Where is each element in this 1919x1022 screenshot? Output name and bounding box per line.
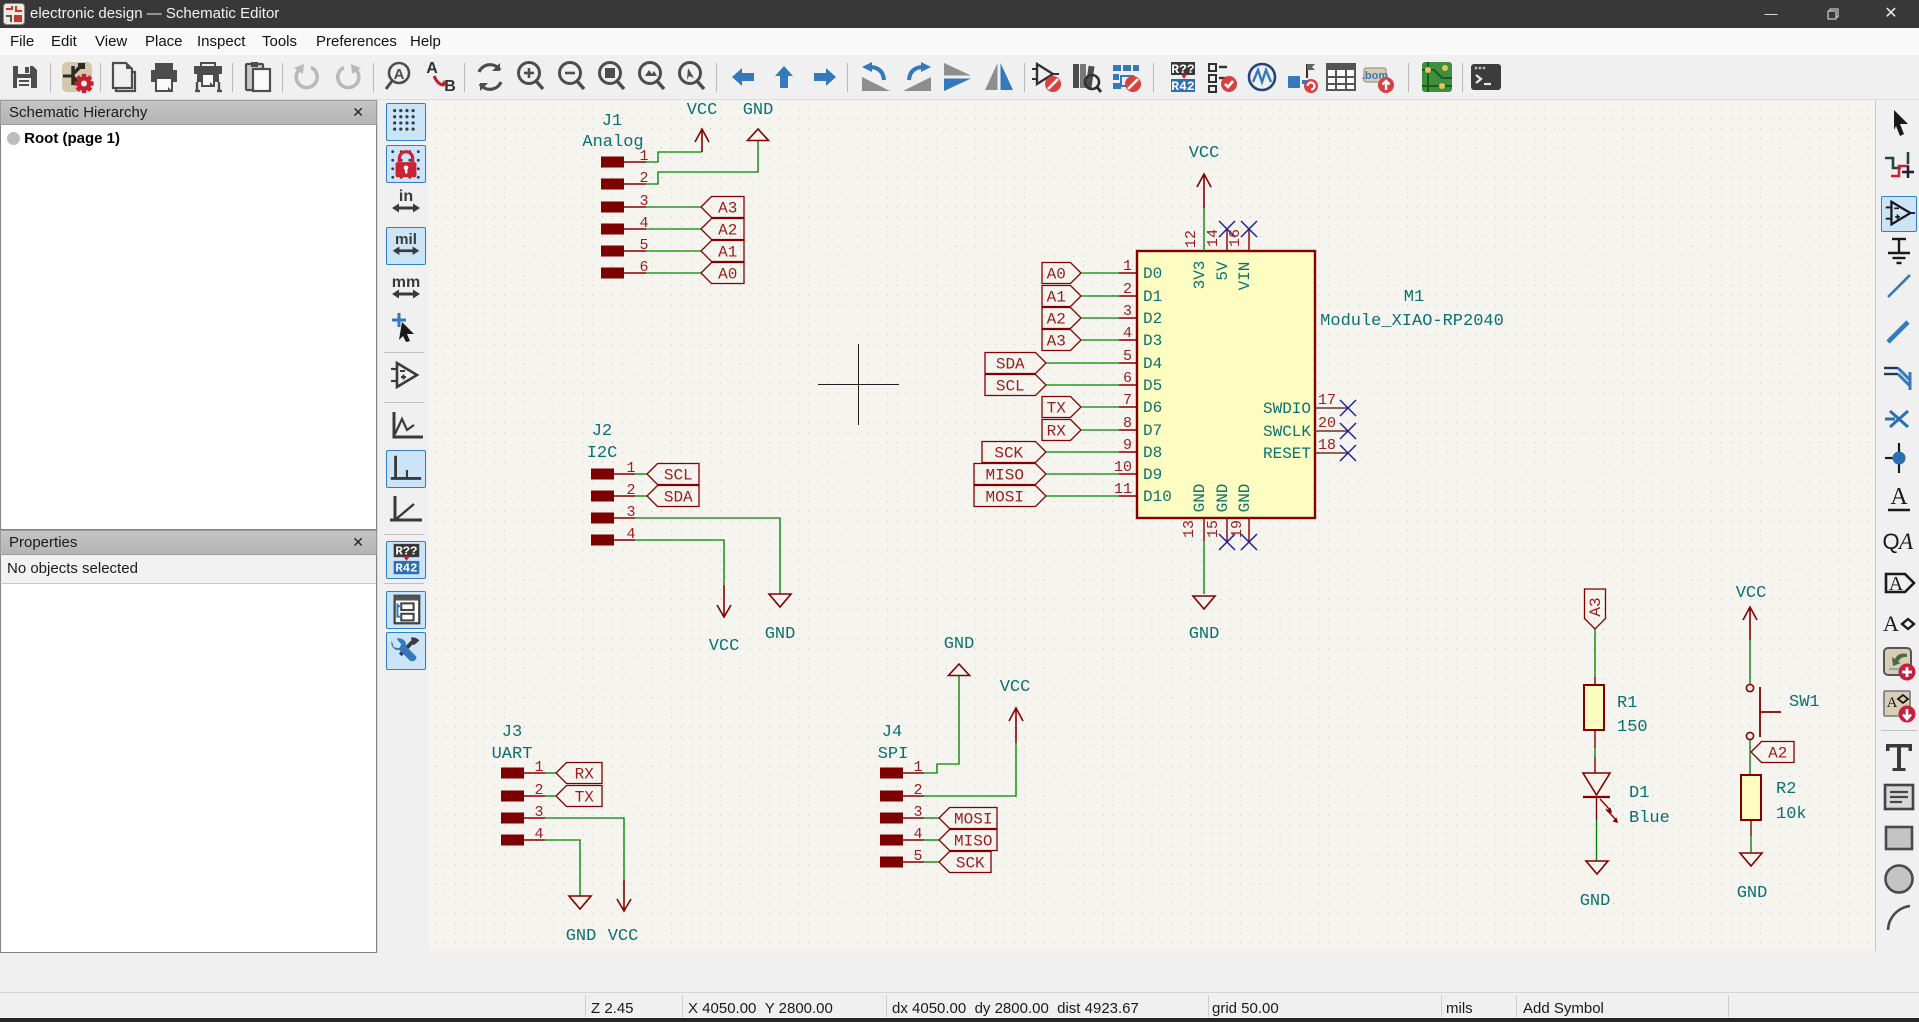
M1 pin stub GND pin13	[1203, 518, 1205, 541]
wire J1 to label A0	[646, 272, 701, 274]
wire VCC to SW1	[1749, 640, 1751, 684]
svg-text:A: A	[1890, 484, 1908, 510]
hierarchical label A1 at M1	[1042, 286, 1081, 307]
status bar	[0, 992, 1919, 1018]
hierarchical label SCL at M1	[985, 375, 1046, 396]
wire A0 to M1	[1081, 272, 1119, 274]
wire MISO to M1	[1046, 473, 1119, 475]
svg-text:D8: D8	[1143, 444, 1162, 462]
crosshair cursor	[818, 344, 899, 425]
wire J1 to label A3	[646, 206, 701, 208]
menu bar	[0, 28, 1919, 55]
wire J4 pin1 to GND	[924, 676, 959, 773]
connector J1 pad pin 3	[601, 202, 624, 213]
svg-text:J4: J4	[882, 723, 902, 742]
wire SCL to M1	[1046, 384, 1119, 386]
connector J2 pad pin 1	[591, 469, 614, 480]
resistor R2 body	[1741, 775, 1761, 820]
svg-text:A: A	[394, 66, 405, 83]
svg-text:SWDIO: SWDIO	[1263, 400, 1311, 418]
wire J1 to label A1	[646, 250, 701, 252]
wire A2 to M1	[1081, 317, 1119, 319]
power symbol VCC inverted at J2	[717, 585, 731, 617]
hierarchical label A0 at J1	[701, 263, 744, 284]
connector J1 pad pin 4	[601, 224, 624, 235]
svg-text:Q: Q	[1882, 529, 1899, 554]
hierarchical label A2 at J1	[701, 219, 744, 240]
no-connect on M1 pin 16	[1241, 221, 1257, 237]
no-connect on M1 pin 17	[1340, 400, 1356, 416]
svg-text:SDA: SDA	[664, 489, 693, 507]
svg-text:mil: mil	[395, 231, 417, 248]
right toolbar	[1875, 100, 1919, 992]
svg-text:A0: A0	[718, 266, 737, 284]
wire A3 to M1	[1081, 339, 1119, 341]
J4 pin 2 stub	[902, 795, 924, 797]
hierarchical label SDA at J2	[647, 486, 699, 507]
svg-text:mm: mm	[392, 274, 420, 291]
wire SCK to M1	[1046, 451, 1119, 453]
wire J2 pin3 to GND	[635, 518, 780, 594]
no-connect on M1 pin 14	[1219, 221, 1235, 237]
LED D1 symbol	[1583, 773, 1618, 823]
hierarchical label TX at J3	[556, 786, 602, 807]
wire J2 pin1 to SCL	[635, 473, 647, 475]
connector J3 pad pin 4	[501, 835, 524, 846]
J3 pin 3 stub	[523, 817, 545, 819]
M1 pin stub SWCLK	[1315, 430, 1347, 432]
svg-text:SWCLK: SWCLK	[1263, 423, 1311, 441]
M1 pin stub A2	[1119, 317, 1137, 319]
no-connect on M1 pin 18	[1340, 445, 1356, 461]
svg-text:MISO: MISO	[954, 833, 992, 851]
no-connect on M1 pin 15	[1219, 534, 1235, 550]
M1 pin stub MISO	[1119, 473, 1137, 475]
svg-text:3V3: 3V3	[1191, 261, 1209, 290]
M1 pin stub A1	[1119, 295, 1137, 297]
wire SDA to M1	[1046, 362, 1119, 364]
wire J4 pin5 to SCK	[924, 861, 939, 863]
connector J3 pad pin 1	[501, 768, 524, 779]
left toolbar	[377, 100, 429, 992]
svg-text:VCC: VCC	[709, 637, 740, 656]
svg-text:A2: A2	[1047, 311, 1066, 329]
power symbol VCC inverted at J3	[617, 880, 631, 911]
wire J3 pin2 to TX	[545, 795, 556, 797]
hierarchical label SCL at J2	[647, 464, 699, 485]
svg-text:GND: GND	[1189, 625, 1220, 644]
R1 top pin stub	[1594, 677, 1596, 685]
svg-text:VCC: VCC	[1000, 678, 1031, 697]
wire TX to M1	[1081, 406, 1119, 408]
hierarchical label MOSI at J4	[939, 808, 997, 829]
svg-text:GND: GND	[1214, 484, 1232, 513]
J2 pin 1 stub	[613, 473, 635, 475]
svg-text:A2: A2	[718, 222, 737, 240]
svg-text:SCL: SCL	[996, 378, 1025, 396]
svg-text:20: 20	[1318, 415, 1336, 432]
svg-text:18: 18	[1318, 437, 1336, 454]
J4 pin 1 stub	[902, 772, 924, 774]
power symbol GND at J3	[569, 896, 591, 909]
wire J4 pin4 to MISO	[924, 839, 939, 841]
power symbol GND at J2	[769, 594, 791, 607]
J4 pin 4 stub	[902, 839, 924, 841]
svg-text:Blue: Blue	[1629, 809, 1670, 828]
svg-text:GND: GND	[1737, 884, 1768, 903]
svg-text:Module_XIAO-RP2040: Module_XIAO-RP2040	[1320, 312, 1504, 331]
M1 pin stub RX	[1119, 429, 1137, 431]
svg-text:19: 19	[1229, 520, 1246, 538]
switch SW1 symbol	[1746, 684, 1781, 739]
hierarchical label TX at M1	[1042, 397, 1081, 418]
connector J4 pad pin 3	[880, 813, 903, 824]
wire J3 pin4 to GND	[545, 840, 580, 896]
connector J4 pad pin 4	[880, 835, 903, 846]
wire R2 to GND	[1750, 820, 1752, 836]
hierarchical label MISO at J4	[939, 830, 997, 851]
svg-text:GND: GND	[1580, 892, 1611, 911]
svg-text:D1: D1	[1143, 288, 1162, 306]
svg-text:GND: GND	[743, 101, 774, 120]
J1 pin 3 stub	[624, 206, 646, 208]
svg-text:RESET: RESET	[1263, 445, 1311, 463]
svg-text:D10: D10	[1143, 488, 1172, 506]
svg-text:SPI: SPI	[878, 745, 909, 764]
connector J2 pad pin 2	[591, 491, 614, 502]
svg-text:A3: A3	[1587, 597, 1605, 616]
svg-text:12: 12	[1183, 230, 1200, 248]
svg-text:D5: D5	[1143, 377, 1162, 395]
module M1 body Module_XIAO-RP2040	[1137, 251, 1315, 518]
M1 pin stub GND pin15	[1226, 518, 1228, 541]
svg-text:15: 15	[1205, 520, 1222, 538]
hierarchical label A2 at SW1	[1751, 742, 1794, 763]
M1 pin stub VIN	[1248, 229, 1250, 251]
svg-text:5V: 5V	[1214, 261, 1232, 281]
svg-text:J2: J2	[592, 422, 612, 441]
resistor R1 body	[1584, 685, 1604, 730]
svg-text:SCK: SCK	[994, 445, 1023, 463]
wire J1 to label A2	[646, 228, 701, 230]
svg-text:A: A	[1897, 529, 1914, 554]
M1 pin stub MOSI	[1119, 495, 1137, 497]
svg-text:I2C: I2C	[587, 444, 618, 463]
no-connect on M1 pin 19	[1241, 534, 1257, 550]
M1 pin stub TX	[1119, 406, 1137, 408]
J1 pin 5 stub	[624, 250, 646, 252]
svg-text:D0: D0	[1143, 265, 1162, 283]
no-connect on M1 pin 20	[1340, 423, 1356, 439]
wire A3 label to R1	[1594, 629, 1596, 677]
M1 pin stub SDA	[1119, 362, 1137, 364]
connector J1 pad pin 1	[601, 157, 624, 168]
svg-text:14: 14	[1205, 229, 1222, 247]
svg-text:GND: GND	[1236, 484, 1254, 513]
power symbol GND at J4	[949, 664, 970, 676]
J4 pin 3 stub	[902, 817, 924, 819]
svg-text:A3: A3	[718, 200, 737, 218]
connector J1 pad pin 2	[601, 179, 624, 190]
svg-text:TX: TX	[575, 789, 595, 807]
svg-text:A: A	[1887, 695, 1898, 711]
wire M1 GND pin13 to GND symbol	[1203, 541, 1205, 594]
J3 pin 2 stub	[523, 795, 545, 797]
svg-text:TX: TX	[1047, 400, 1067, 418]
svg-text:D6: D6	[1143, 399, 1162, 417]
toolbar	[0, 55, 1919, 100]
wire J1 pin1 to VCC	[646, 152, 702, 162]
svg-text:MISO: MISO	[986, 467, 1024, 485]
svg-text:SCL: SCL	[664, 467, 693, 485]
svg-text:MOSI: MOSI	[986, 489, 1024, 507]
svg-text:GND: GND	[566, 927, 597, 946]
M1 pin stub SCL	[1119, 384, 1137, 386]
connector J1 pad pin 6	[601, 268, 624, 279]
J1 pin 1 stub	[624, 161, 646, 163]
svg-text:A0: A0	[1047, 266, 1066, 284]
M1 pin stub SWDIO	[1315, 407, 1347, 409]
power symbol VCC at M1	[1197, 174, 1211, 208]
canvas	[429, 100, 1875, 951]
svg-text:GND: GND	[944, 635, 975, 654]
connector J2 pad pin 3	[591, 513, 614, 524]
svg-text:Analog: Analog	[582, 133, 643, 152]
power symbol GND at R2	[1740, 853, 1762, 866]
J1 pin 4 stub	[624, 228, 646, 230]
hierarchical label A3 vertical at R1	[1585, 589, 1606, 629]
svg-text:150: 150	[1617, 718, 1648, 737]
power symbol GND at J1	[748, 129, 769, 141]
J4 pin 5 stub	[902, 861, 924, 863]
svg-text:RX: RX	[1047, 423, 1067, 441]
svg-text:D9: D9	[1143, 466, 1162, 484]
J1 pin 6 stub	[624, 272, 646, 274]
svg-text:SW1: SW1	[1789, 693, 1820, 712]
svg-text:17: 17	[1318, 392, 1336, 409]
power symbol VCC at J1	[695, 129, 709, 152]
hierarchical label A2 at M1	[1042, 308, 1081, 329]
svg-text:MOSI: MOSI	[954, 811, 992, 829]
wire J1 pin2 to GND	[646, 141, 758, 184]
svg-text:B: B	[444, 78, 456, 94]
M1 pin stub SCK	[1119, 451, 1137, 453]
hierarchical label SCK at M1	[982, 442, 1046, 463]
connector J3 pad pin 2	[501, 791, 524, 802]
svg-text:UART: UART	[492, 745, 533, 764]
svg-text:D7: D7	[1143, 422, 1162, 440]
wire A1 to M1	[1081, 295, 1119, 297]
J3 pin 4 stub	[523, 839, 545, 841]
left panel	[0, 100, 377, 992]
svg-text:R42: R42	[395, 561, 417, 575]
svg-text:A2: A2	[1768, 745, 1787, 763]
svg-text:R2: R2	[1776, 780, 1796, 799]
connector J2 pad pin 4	[591, 535, 614, 546]
svg-text:SCK: SCK	[956, 855, 985, 873]
hierarchical label MOSI at M1	[974, 486, 1046, 507]
wire J4 pin2 to VCC	[924, 743, 1016, 796]
svg-text:A: A	[1883, 611, 1899, 636]
svg-text:13: 13	[1181, 520, 1198, 538]
J1 pin 2 stub	[624, 183, 646, 185]
wire MOSI to M1	[1046, 495, 1119, 497]
connector J4 pad pin 2	[880, 791, 903, 802]
M1 pin stub GND pin19	[1248, 518, 1250, 541]
J2 pin 4 stub	[613, 539, 635, 541]
power symbol GND at D1	[1586, 861, 1608, 874]
hierarchical label A3 at J1	[701, 197, 744, 218]
svg-text:A: A	[426, 60, 438, 77]
svg-text:in: in	[399, 188, 413, 205]
svg-text:A1: A1	[718, 244, 737, 262]
hierarchical label RX at J3	[556, 763, 602, 784]
J3 pin 1 stub	[523, 772, 545, 774]
wire J3 pin3 to VCC	[545, 818, 624, 880]
svg-text:J1: J1	[602, 112, 622, 131]
wire J2 pin2 to SDA	[635, 495, 647, 497]
svg-text:M1: M1	[1404, 288, 1424, 307]
wire SW1 to R2	[1749, 740, 1751, 775]
svg-text:VIN: VIN	[1236, 262, 1254, 291]
wire J2 pin4 to VCC	[635, 540, 724, 585]
svg-text:16: 16	[1227, 229, 1244, 247]
svg-text:R1: R1	[1617, 694, 1637, 713]
wire RX to M1	[1081, 429, 1119, 431]
J2 pin 2 stub	[613, 495, 635, 497]
M1 pin stub A0	[1119, 272, 1137, 274]
hierarchical label A1 at J1	[701, 241, 744, 262]
hierarchical label MISO at M1	[974, 464, 1046, 485]
connector J3 pad pin 3	[501, 813, 524, 824]
power symbol VCC at SW1	[1743, 607, 1757, 640]
wire D1 to GND	[1596, 797, 1598, 820]
hierarchical label A3 at M1	[1042, 330, 1081, 351]
connector J1 pad pin 5	[601, 246, 624, 257]
svg-text:D1: D1	[1629, 784, 1649, 803]
svg-text:GND: GND	[1191, 484, 1209, 513]
svg-text:VCC: VCC	[608, 927, 639, 946]
wire R1 to D1	[1594, 730, 1596, 748]
svg-text:10k: 10k	[1776, 805, 1807, 824]
svg-text:J3: J3	[502, 723, 522, 742]
hierarchical label SCK at J4	[939, 852, 991, 873]
M1 pin stub 5V	[1226, 229, 1228, 251]
svg-text:D4: D4	[1143, 355, 1162, 373]
svg-text:VCC: VCC	[687, 101, 718, 120]
svg-text:R42: R42	[1171, 79, 1195, 94]
hierarchical label SDA at M1	[985, 353, 1046, 374]
M1 pin stub A3	[1119, 339, 1137, 341]
svg-text:D3: D3	[1143, 332, 1162, 350]
svg-text:D2: D2	[1143, 310, 1162, 328]
svg-text:SDA: SDA	[996, 356, 1025, 374]
svg-text:GND: GND	[765, 625, 796, 644]
wire M1 3V3 to VCC	[1203, 208, 1205, 251]
wire J3 pin1 to RX	[545, 772, 556, 774]
svg-text:VCC: VCC	[1189, 144, 1220, 163]
svg-text:A1: A1	[1047, 289, 1066, 307]
hierarchical label A0 at M1	[1042, 263, 1081, 284]
svg-text:RX: RX	[575, 766, 595, 784]
svg-text:VCC: VCC	[1736, 584, 1767, 603]
title bar	[0, 0, 1919, 28]
svg-text:A3: A3	[1047, 333, 1066, 351]
svg-text:A: A	[1889, 573, 1904, 595]
M1 pin stub RESET	[1315, 452, 1347, 454]
connector J4 pad pin 5	[880, 857, 903, 868]
J2 pin 3 stub	[613, 517, 635, 519]
hierarchical label RX at M1	[1042, 420, 1081, 441]
power symbol VCC at J4	[1009, 708, 1023, 743]
wire J4 pin3 to MOSI	[924, 817, 939, 819]
connector J4 pad pin 1	[880, 768, 903, 779]
power symbol GND at M1	[1193, 596, 1215, 609]
